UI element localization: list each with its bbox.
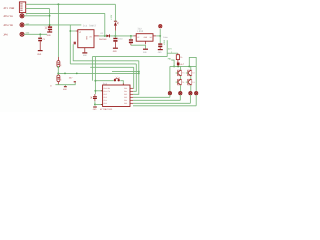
svg-text:JP1 PWR: JP1 PWR (3, 7, 15, 10)
svg-text:PB1: PB1 (124, 90, 127, 93)
capacitor C2 (38, 34, 46, 50)
supply symbol +3V3 (159, 25, 162, 28)
svg-text:GND: GND (37, 53, 42, 56)
diode D1 (99, 32, 110, 41)
capacitor C1 (48, 25, 52, 32)
ground under C3 (113, 47, 118, 49)
svg-text:GND: GND (83, 54, 87, 57)
svg-text:T3: T3 (182, 81, 185, 84)
button S1 (114, 77, 120, 82)
node riser y71.6 (138, 71, 140, 73)
svg-text:PD1/TX: PD1/TX (104, 90, 111, 93)
transistor Q3 (177, 79, 181, 85)
pad P1 (20, 14, 24, 18)
wire y84.7 (55, 82, 75, 84)
node R4 chain (177, 65, 179, 67)
svg-text:T1: T1 (182, 72, 185, 75)
wire Q1-Q3 link (180, 76, 182, 79)
svg-text:JP5/1B: JP5/1B (3, 24, 13, 27)
pin names IC3 right (124, 87, 127, 105)
svg-text:PD2: PD2 (104, 93, 107, 96)
wire pad4 riser from y105.8 (195, 95, 197, 106)
wire y71.6 (112, 71, 139, 73)
svg-text:GND: GND (47, 34, 52, 37)
wire rail corner to IC1 VI (70, 25, 75, 31)
svg-text:JP5/1A: JP5/1A (3, 15, 13, 18)
svg-text:GND: GND (143, 51, 147, 54)
wire 5V rail (99, 35, 133, 37)
pin stub IC2 VO (153, 35, 156, 37)
wire y67.3 short (90, 66, 134, 68)
svg-text:GND: GND (93, 108, 97, 111)
capacitor C5 under 3V3 (158, 36, 168, 49)
svg-text:GND: GND (158, 51, 162, 54)
svg-text:D1: D1 (101, 32, 104, 35)
connector JP1 (19, 2, 25, 13)
svg-text:100n: 100n (163, 36, 169, 39)
op IC3 mcu box (103, 85, 130, 107)
wire 3V3 label riser (166, 40, 168, 56)
wire Q4 emitter to pad3 (190, 85, 192, 92)
wire pad2 riser from y100.3 (179, 95, 181, 100)
red blob x75 (74, 81, 76, 82)
node VO junction (159, 35, 161, 37)
ground under C2 (38, 50, 43, 52)
node VI branch (69, 30, 71, 32)
wire y104.5 (95, 104, 103, 106)
wire 3V3 long (92, 56, 167, 58)
ground under IC2 (143, 48, 148, 50)
pin stub IC3 top (122, 83, 124, 85)
pin stub VI (76, 30, 78, 32)
wire net12V top rail (26, 3, 116, 5)
wire vertical x49.6 (49, 9, 51, 25)
op IC2 regulator box (136, 34, 153, 42)
wire pin y100.3 (133, 99, 180, 101)
svg-text:PB0: PB0 (124, 87, 127, 90)
wire pad1 (24, 15, 49, 17)
svg-text:GND: GND (144, 36, 148, 39)
wire base feed left (171, 60, 174, 66)
node SJ1 bottom (57, 66, 59, 68)
svg-text:+12V: +12V (110, 14, 113, 20)
solder jumper SJ1 (57, 61, 60, 67)
plus mark C1 (45, 26, 47, 29)
wire pad3 riser from y103.3 (189, 95, 191, 103)
wire y60.8 (73, 44, 139, 61)
svg-text:PD5: PD5 (104, 102, 107, 105)
pad K3 (189, 92, 192, 95)
wire base Q3 (176, 81, 178, 83)
svg-text:PB5: PB5 (124, 102, 127, 105)
pin stub VO (94, 35, 99, 37)
plus mark C7 (91, 97, 93, 99)
op IC1 regulator box (78, 30, 94, 48)
wire vertical x58.4 from top dot (57, 4, 59, 57)
node crystal tap (94, 80, 96, 82)
node pad1 join (49, 15, 51, 17)
wire Q2 collector up (190, 66, 192, 70)
wire SJ2 bottom lead (57, 82, 59, 85)
ground under C5 (158, 49, 163, 51)
svg-text:IC1 7805T: IC1 7805T (83, 25, 97, 28)
plus mark SJ2 (60, 79, 61, 80)
wire y73.4 (58, 72, 139, 74)
capacitor C3 under rail (113, 36, 123, 48)
svg-text:JP6: JP6 (3, 33, 8, 36)
ground under IC1 (82, 52, 87, 54)
capacitor C4 (129, 36, 133, 45)
pin stub IC2 VI (133, 35, 136, 37)
wire pad1 riser from y97.3 (169, 95, 171, 97)
wire x95.4 column (94, 57, 96, 94)
node right bus join (188, 65, 190, 67)
wire pin y97.3 (133, 96, 170, 98)
svg-text:PB2: PB2 (124, 93, 127, 96)
node dot1 (104, 35, 106, 37)
wire cluster rail y66.4 (170, 65, 196, 67)
svg-text:+3V3: +3V3 (163, 39, 166, 45)
wire pin y90.8 (95, 90, 102, 92)
svg-text:LF33: LF33 (137, 30, 143, 33)
svg-text:PD4: PD4 (104, 99, 107, 102)
wire pad3 (24, 33, 47, 35)
wire x92.4 column (91, 57, 93, 81)
wire base Q1 (176, 72, 178, 74)
transistor Q1 (177, 70, 181, 76)
pad K4 (195, 92, 198, 95)
svg-text:VO: VO (150, 36, 153, 39)
pin names IC3 left (104, 87, 111, 105)
pin stub IC3 left2 (101, 104, 103, 106)
wire right bus jog (189, 57, 196, 91)
wire pin y103.3 (133, 102, 190, 104)
transistor Q4 (188, 79, 192, 85)
node y73.4 junction (57, 72, 59, 74)
node base bus (173, 65, 175, 67)
node C1 junction (49, 24, 51, 26)
node dot3 before IC2 (130, 35, 132, 37)
wire pin y88.3 riser (132, 67, 135, 88)
svg-text:PD3: PD3 (104, 96, 107, 99)
wire Q1 collector up (180, 66, 182, 70)
wire vertical x70.3 down (69, 31, 71, 64)
node dot2 LED column (114, 35, 116, 37)
wire 3V3 column up (159, 29, 161, 36)
wire R4 top feed (167, 52, 178, 54)
pin stub IC2 GND (145, 41, 147, 44)
wire pad1 column (169, 66, 171, 91)
svg-text:IC3: IC3 (103, 82, 108, 85)
svg-text:PD0/RX: PD0/RX (104, 87, 111, 90)
wire pin y94.3 riser (133, 61, 139, 95)
node y73.4 stub a (64, 73, 66, 75)
wire pin y91.3 riser (133, 64, 136, 91)
plus mark SJ1 (60, 65, 61, 66)
node junction top rail (57, 3, 59, 5)
wire y63.9 (70, 63, 136, 65)
node C7 bottom (94, 104, 96, 106)
svg-text:PB4: PB4 (124, 99, 127, 102)
wire pin3 (26, 8, 50, 10)
svg-text:T4: T4 (192, 81, 195, 84)
ground under C7 (93, 106, 97, 108)
transistor Q2 (188, 70, 192, 76)
pin stub IC3 left1 (101, 90, 103, 92)
mystery pin blob left of IC1 (74, 42, 76, 45)
wire button left (95, 80, 113, 82)
svg-text:100n: 100n (118, 38, 124, 41)
pad K1 (168, 92, 171, 95)
svg-text:PB3: PB3 (124, 96, 127, 99)
svg-text:1N4148: 1N4148 (99, 38, 107, 41)
node gnd stub (64, 85, 66, 87)
pad K2 (179, 92, 182, 95)
node pin join y90.8 (94, 90, 96, 92)
wire SJ1 top lead (57, 57, 59, 61)
node y73.4 stub b (76, 73, 78, 75)
svg-text:VI: VI (79, 31, 81, 34)
svg-text:1k: 1k (180, 56, 183, 59)
wire button right (120, 81, 123, 85)
wire VO to 3V3 column (156, 35, 160, 37)
svg-text:T2: T2 (192, 72, 194, 75)
svg-text:C2: C2 (43, 38, 46, 41)
pin stub IC1 GND (84, 48, 86, 53)
svg-text:GND: GND (63, 88, 67, 91)
svg-text:GND: GND (113, 50, 118, 53)
wire pin4 (26, 12, 105, 14)
node riser dot (138, 72, 140, 74)
svg-text:G: G (50, 85, 52, 88)
pad P2 (20, 23, 24, 27)
LED D2 (114, 21, 119, 36)
wire Q2-Q4 link (190, 76, 192, 79)
svg-text:VI: VI (137, 36, 139, 39)
resistor R4 (176, 53, 183, 62)
pin stubs IC3 right (130, 88, 133, 103)
pad P3 (20, 32, 24, 36)
wire vertical x104.8 (104, 13, 106, 36)
wire base Q2 (186, 72, 188, 74)
wire SJ1-SJ2 link (57, 67, 59, 75)
wire pin y105.8 (133, 105, 196, 107)
wire Q3 emitter to pad2 (180, 85, 182, 92)
ground bar y86 (64, 86, 67, 88)
capacitor C7 (93, 94, 97, 105)
svg-text:4k7: 4k7 (69, 76, 73, 79)
node C2 junction (39, 33, 41, 35)
wire rail 12V (24, 24, 81, 26)
wire C4 to IC2 gnd (131, 45, 146, 48)
solder jumper SJ2 (57, 75, 60, 82)
wire top rail corner down (114, 4, 116, 21)
svg-text:GND: GND (85, 36, 88, 40)
wire base Q4 (186, 81, 188, 83)
svg-text:4k7: 4k7 (180, 63, 184, 66)
ground under C1 (47, 31, 52, 33)
diode D5 (177, 63, 185, 67)
svg-text:VO: VO (89, 35, 92, 38)
svg-text:ATTINY2313: ATTINY2313 (100, 108, 113, 111)
